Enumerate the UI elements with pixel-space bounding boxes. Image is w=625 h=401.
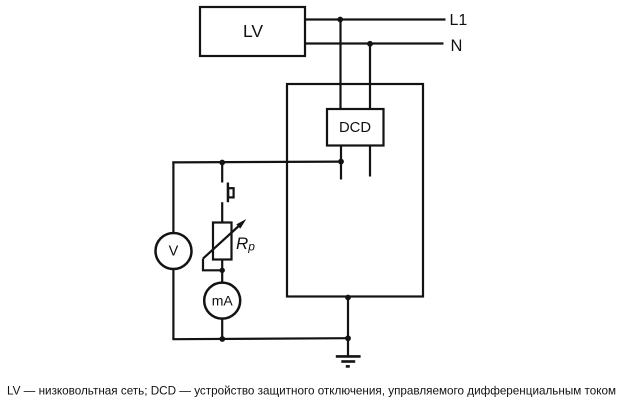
wire left vertical lower <box>172 269 174 340</box>
svg-text:V: V <box>169 244 179 260</box>
pin DCD left <box>340 147 342 180</box>
wire top horizontal <box>172 161 341 164</box>
wire N down to DCD <box>369 44 371 109</box>
wire L1 <box>306 18 446 20</box>
wire N <box>306 42 444 44</box>
wire L1 down to DCD <box>339 20 341 109</box>
svg-text:mA: mA <box>212 293 234 309</box>
variable resistor Rp <box>213 223 232 260</box>
block DCD <box>327 109 384 146</box>
wire enclosure to ground <box>347 298 349 357</box>
wire left vertical upper <box>172 161 174 233</box>
push button S <box>228 183 234 203</box>
node enclosure bottom <box>345 295 351 301</box>
milliammeter mA <box>204 283 240 319</box>
svg-text:DCD: DCD <box>339 120 371 136</box>
node bottom branch <box>219 336 225 342</box>
enclosure box <box>287 84 423 297</box>
node wiper junction <box>220 268 225 273</box>
arrow of Rp <box>203 224 242 259</box>
svg-text:Rp: Rp <box>236 234 255 253</box>
ground <box>336 356 361 366</box>
node on N <box>367 41 373 47</box>
source box LV <box>200 7 305 56</box>
wiper wire <box>203 259 222 271</box>
wire resistor to mA <box>221 261 223 284</box>
voltmeter V <box>156 233 192 269</box>
node bottom right <box>345 335 351 341</box>
svg-text:LV: LV <box>243 21 263 41</box>
node on L1 <box>337 17 343 23</box>
wire button to resistor <box>221 202 223 222</box>
pin DCD right <box>369 147 371 177</box>
svg-text:LV — низковольтная сеть; DCD —: LV — низковольтная сеть; DCD — устройств… <box>7 384 616 398</box>
svg-text:N: N <box>451 37 463 55</box>
wire bottom horizontal <box>172 338 348 339</box>
svg-text:L1: L1 <box>450 12 468 29</box>
wire button branch upper <box>221 162 223 183</box>
node button branch <box>219 160 225 166</box>
wire mA to bottom <box>221 319 223 340</box>
node at DCD pin <box>338 159 344 165</box>
